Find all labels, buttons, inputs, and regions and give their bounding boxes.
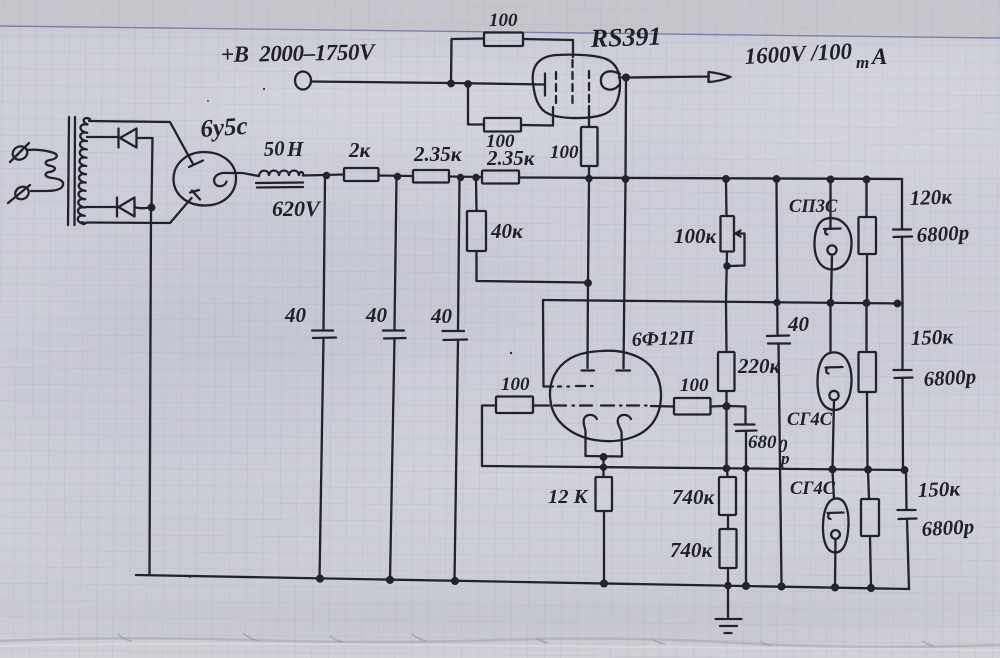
tube V6 SG4S-2 wire top from third rail: [833, 471, 835, 499]
third rail right corner down to capacitor C8: [905, 470, 908, 510]
node junction dot first rail / 100k: [723, 176, 729, 182]
V4 grid2 dash-dot: [554, 404, 647, 406]
wire C5 bottom to second rail end: [901, 237, 904, 304]
second rail left corner down to 6F12P grid1: [543, 300, 553, 387]
V4 grid2 right wire: [651, 405, 674, 408]
first rail right corner down to capacitor C5: [901, 179, 903, 229]
svg-text:СП3С: СП3С: [789, 197, 838, 217]
svg-text:740к: 740к: [670, 538, 714, 562]
capacitor C6 680p wire from node D: [729, 406, 746, 424]
node junction dot bus/C4: [779, 584, 785, 590]
node junction dot bus/C3: [452, 578, 458, 584]
node junction dot first rail / 40uF-4: [774, 176, 780, 182]
transformer T1 primary terminal bottom: [8, 184, 31, 203]
resistor R13 12k wire top: [602, 469, 604, 477]
svg-text:40: 40: [284, 303, 307, 327]
resistor R5 100 (top): [484, 33, 523, 47]
V4 left plate wire bar: [582, 369, 595, 371]
node junction dot second rail / 150k: [864, 300, 870, 306]
wire C7 bottom to third rail: [901, 378, 904, 470]
svg-text:150к: 150к: [917, 476, 961, 502]
wire R15 bottom across ground bus to ground: [727, 568, 729, 617]
V1 bottom electrode: [190, 190, 200, 200]
diode D1: [119, 129, 137, 148]
bottom crease: [0, 638, 1000, 647]
node junction dot second rail / C5: [895, 301, 901, 307]
svg-text:р: р: [779, 449, 790, 468]
top blue ruled line: [0, 26, 1000, 38]
svg-text:220к: 220к: [737, 354, 782, 378]
wire node A down to ground bus: [150, 210, 152, 575]
svg-text:+B 2000–1750V: +B 2000–1750V: [221, 39, 377, 67]
potentiometer R8 wiper wire: [730, 234, 745, 267]
resistor R9 120k wire top: [865, 181, 867, 217]
node junction dot bus/C1: [317, 576, 323, 582]
resistor R10 220k wire top from second rail: [725, 303, 728, 352]
wire +B terminal to RS391 grid: [311, 82, 545, 85]
second rail wire: [543, 300, 903, 304]
svg-text:A: A: [870, 44, 887, 69]
node C junction dot: [623, 75, 629, 81]
resistor R16 150k: [859, 352, 877, 392]
resistor R4 40k: [467, 211, 486, 251]
V5 cathode circle: [829, 391, 838, 400]
potentiometer R8 100k body: [721, 216, 735, 252]
svg-text:50: 50: [263, 136, 286, 161]
wire secondary top to rectifier plate: [89, 121, 193, 164]
wire C8 bottom to ground bus end: [907, 519, 909, 589]
svg-text:6800р: 6800р: [923, 364, 977, 391]
wire R6 to tube bottom: [521, 107, 553, 126]
svg-text:2.35к: 2.35к: [486, 146, 536, 170]
capacitor C2 40uF plates: [383, 331, 406, 339]
V4 cathode hook right: [618, 415, 631, 456]
resistor R2 2.35k: [413, 170, 449, 183]
soft tonal patches: [20, 185, 580, 385]
tube V4 6F12P envelope: [550, 351, 661, 441]
node junction dot bus/740k: [725, 583, 730, 588]
node choke-out junction dot: [324, 173, 329, 178]
V4 cathode hook left: [584, 415, 597, 456]
resistor R7 100 (below RS391) wire top: [588, 106, 590, 127]
stray pen speck: [510, 352, 512, 354]
wire R17 bottom to ground bus: [870, 536, 871, 587]
capacitor C6 lower wire down across third rail to ground bus: [745, 431, 747, 585]
node junction dot third rail / 740k: [724, 466, 729, 471]
node junction dot first rail / SP3S: [828, 177, 834, 183]
capacitor C4 40uF plates: [767, 336, 790, 344]
resistor R6 100 (lower): [484, 118, 521, 132]
svg-text:12 К: 12 К: [548, 486, 589, 508]
stray pen dot on ground bus: [189, 575, 192, 578]
svg-text:RS391: RS391: [589, 22, 662, 53]
V6 cathode circle: [831, 530, 840, 539]
tube V5 SG4S-1 envelope: [818, 352, 852, 410]
stray pen speck: [207, 100, 209, 102]
wire R4 bottom L-path to node B: [477, 251, 587, 283]
resistor R4 40k branch wire: [475, 179, 478, 211]
choke L1 50H humps: [259, 171, 303, 177]
node junction dot third rail / 150k-2: [865, 467, 871, 473]
node junction dot bus/680p: [743, 583, 749, 589]
wire D1 to corner and down to node A: [137, 138, 153, 207]
wire node C down through first rail: [624, 80, 627, 179]
svg-text:740к: 740к: [672, 485, 716, 509]
wire first rail down to node B and 6F12P left plate: [588, 181, 590, 368]
wire node E to third rail: [602, 459, 604, 468]
node junction dot third rail / right corner: [902, 467, 908, 473]
tube V2 RS391 envelope: [533, 55, 620, 118]
capacitor C6 680p plates: [735, 425, 757, 432]
wire R5 to tube top: [523, 39, 573, 57]
V6 bottom wire to ground bus: [834, 539, 837, 587]
svg-text:100: 100: [501, 374, 530, 395]
wire up-branch to resistor R5: [451, 39, 484, 84]
node junction dot (40k branch): [473, 175, 478, 180]
node junction dot upper-100 branch: [448, 81, 453, 86]
transformer T1 primary terminal top: [10, 143, 30, 162]
svg-text:680: 680: [748, 432, 777, 453]
ground bus wire (bottom rail): [136, 575, 909, 589]
output arrow 1600V: [629, 72, 731, 82]
capacitor C1 40uF plates: [312, 331, 336, 339]
wire pot body bottom to second rail: [726, 252, 727, 302]
capacitor C3 lower wire to ground bus: [455, 340, 459, 581]
wire R2 to R3: [449, 175, 482, 178]
svg-text:620V: 620V: [272, 196, 322, 221]
node junction dot R7/rail: [586, 176, 591, 181]
capacitor C5 6800p plates: [893, 230, 912, 238]
svg-text:100: 100: [489, 10, 518, 31]
transformer T1 primary winding: [27, 150, 63, 191]
ground symbol: [716, 619, 742, 633]
V2 dashed electrode 2: [571, 60, 573, 104]
choke L1 core bars: [256, 181, 303, 184]
node E cathode junction dot: [601, 454, 607, 460]
svg-text:Н: Н: [286, 137, 304, 161]
wire R7 bottom to first rail: [588, 166, 590, 178]
wire R1 to R2: [379, 174, 414, 177]
svg-text:СГ4С: СГ4С: [790, 479, 836, 499]
wire V2 output to node C: [619, 76, 626, 78]
transformer T1 secondary winding: [78, 118, 90, 224]
capacitor C4 40uF wire (first rail down across second rail): [777, 181, 778, 335]
transformer T1 core: [68, 117, 69, 225]
wire R12 to node D: [711, 405, 725, 408]
svg-text:m: m: [856, 53, 869, 72]
svg-text:100: 100: [680, 375, 709, 396]
svg-text:СГ4С: СГ4С: [787, 410, 833, 430]
V2 grid T-bar electrode: [544, 74, 546, 96]
V4 right plate wire bar: [617, 369, 631, 371]
resistor R3 2.35k: [482, 171, 519, 184]
V3 anode bar: [824, 229, 841, 235]
diode D2: [117, 198, 135, 217]
svg-text:6800р: 6800р: [916, 220, 970, 247]
capacitor C8 6800p plates: [898, 510, 917, 519]
svg-text:100к: 100к: [674, 224, 718, 248]
V5 bottom wire to third rail: [833, 400, 835, 468]
svg-text:6у5с: 6у5с: [200, 113, 249, 143]
wire R16 bottom to third rail: [866, 392, 869, 469]
capacitor C1 40uF branch wire upper: [324, 177, 326, 329]
wire R9 bottom to second rail: [866, 254, 868, 303]
resistor R14 740k: [719, 477, 736, 515]
node junction dot bus/12k: [601, 581, 607, 587]
capacitor C7 6800p wire from second rail: [901, 304, 903, 370]
main bus wire (first rail): [519, 178, 902, 180]
node junction dot second rail / SP3S: [828, 300, 834, 306]
svg-text:40: 40: [430, 304, 453, 328]
node junction dot third rail / 680p: [744, 466, 749, 471]
tube V3 SP3S envelope: [814, 218, 851, 269]
wire R11 left corner down to third rail: [482, 406, 496, 467]
node junction dot pot bottom: [724, 263, 729, 268]
node junction dot third rail / SG4S-2: [830, 467, 836, 473]
node junction dot third rail / 12k: [601, 465, 606, 470]
resistor R16 150k wire top from second rail: [865, 305, 867, 352]
node junction dot bus/150k-2: [868, 585, 874, 591]
+B input terminal: [295, 72, 311, 90]
resistor R17 150k wire top from third rail: [868, 471, 869, 499]
V4 grid2 dash-dot left wire: [533, 404, 549, 406]
svg-text:6800р: 6800р: [921, 514, 975, 541]
wire choke to R 2k: [303, 175, 344, 176]
node junction dot bus/SG4S-2: [832, 585, 838, 591]
wire secondary upper tap to diode D1: [87, 136, 117, 138]
wire secondary lower tap to diode D2: [86, 206, 115, 208]
wire down-branch to resistor R6: [468, 84, 484, 125]
svg-text:120к: 120к: [909, 184, 953, 210]
svg-text:40: 40: [365, 303, 388, 327]
V4 cathode bottom bar: [586, 455, 623, 458]
node junction dot first rail / 120k: [864, 177, 870, 183]
node junction dot: [395, 174, 400, 179]
node junction dot second rail / C4 40uF: [775, 300, 780, 305]
resistor R17 150k: [861, 499, 879, 536]
potentiometer R8 100k wire top: [725, 181, 728, 216]
wire V1 output to choke: [242, 173, 259, 176]
tube V6 SG4S-2 envelope: [823, 498, 849, 552]
capacitor C1 lower wire to ground bus: [320, 338, 324, 580]
V3 cathode circle: [827, 245, 836, 254]
resistor R1 2k: [344, 168, 379, 181]
node D junction dot: [724, 403, 730, 409]
resistor R12 100 (right of V4): [674, 398, 711, 415]
svg-text:2к: 2к: [348, 138, 372, 162]
potentiometer R8 wiper arrow: [736, 231, 741, 237]
svg-text:6Ф12П: 6Ф12П: [631, 327, 696, 351]
stray pen speck: [263, 88, 265, 90]
svg-text:150к: 150к: [910, 324, 954, 350]
wire secondary bottom to rectifier cathode-bottom: [88, 198, 192, 223]
node junction dot (C3 branch): [458, 175, 463, 180]
node A junction dot: [149, 205, 155, 211]
V1 cathode curl: [214, 173, 242, 186]
resistor R11 100 (left of V4): [496, 397, 533, 414]
svg-text:2.35к: 2.35к: [413, 142, 463, 166]
wire node C continuation to 6F12P right plate: [624, 181, 626, 368]
V2 dashed electrode 1: [555, 72, 557, 104]
capacitor C3 40uF branch wire upper: [458, 179, 460, 330]
V1 top plate electrode: [189, 161, 203, 168]
capacitor C2 40uF branch wire upper: [395, 178, 397, 330]
resistor R13 12k: [596, 477, 613, 511]
tube V5 SG4S-1 wire top from second rail: [829, 305, 831, 353]
third rail wire: [482, 466, 906, 470]
capacitor C2 lower wire to ground bus: [390, 339, 395, 581]
capacitor C7 6800p plates: [894, 370, 913, 378]
V5 anode bar: [826, 367, 843, 374]
V2 cathode curl: [601, 71, 620, 89]
V6 anode bar: [828, 513, 844, 520]
resistor R7 100: [581, 127, 598, 166]
V2 dashed electrode 3: [588, 71, 590, 106]
node junction dot on first rail: [623, 176, 628, 181]
V3 bottom wire to second rail: [831, 255, 832, 303]
resistor R9 120k: [859, 217, 877, 254]
V4 grid1 dash-dot: [558, 385, 593, 388]
svg-text:40: 40: [787, 312, 810, 336]
resistor R15 740k: [720, 529, 737, 568]
darker strip above top ruled line: [0, 0, 1000, 37]
wire R10 bottom to node D: [725, 391, 727, 405]
resistor R10 220k: [718, 352, 735, 391]
tube V3 SP3S wire top: [829, 181, 831, 228]
wire R13 bottom to ground bus: [603, 511, 605, 582]
resistor R14 740k wire top: [726, 470, 729, 477]
node B junction dot: [585, 280, 591, 286]
node junction dot bus/C2: [387, 577, 393, 583]
rectifier tube V1 6u5s envelope: [174, 152, 237, 206]
capacitor C3 40uF plates: [443, 331, 468, 340]
svg-text:40к: 40к: [490, 219, 524, 243]
wire node D down to third rail: [725, 409, 727, 466]
svg-text:100: 100: [550, 142, 579, 163]
node junction dot lower-100 branch: [465, 81, 470, 86]
capacitor C4 lower wire down to ground bus: [779, 344, 782, 585]
wire D2 to node A: [135, 207, 151, 208]
wire R14 to R15: [727, 515, 729, 529]
